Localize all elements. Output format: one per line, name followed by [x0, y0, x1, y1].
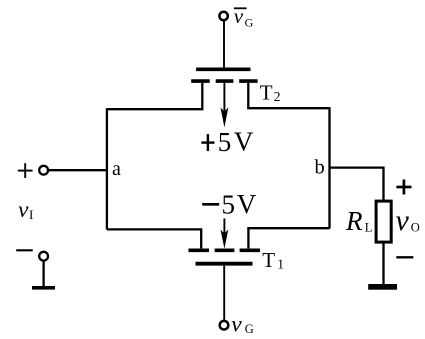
svg-text:v: v [396, 204, 410, 237]
svg-text:2: 2 [274, 89, 281, 104]
svg-text:G: G [245, 15, 254, 29]
svg-text:v: v [231, 311, 242, 337]
wire: input + terminal to node a [49, 169, 107, 171]
svg-text:G: G [245, 322, 254, 336]
label vG [231, 311, 254, 337]
terminal v̄G (top) [219, 12, 227, 20]
wire: RL bottom lead to ground [382, 243, 384, 285]
label T1 [262, 248, 284, 272]
label − (output polarity) [396, 256, 413, 258]
label T2 [260, 81, 281, 105]
label +5 V [201, 127, 254, 158]
svg-text:T: T [260, 81, 273, 105]
label RL [345, 206, 372, 236]
ground (input) [32, 286, 55, 290]
terminal input + [39, 166, 48, 175]
transistor T2 [191, 69, 257, 81]
svg-text:1: 1 [277, 256, 284, 271]
resistor RL [376, 201, 391, 242]
terminal vG (bottom) [220, 321, 229, 330]
svg-text:v: v [18, 197, 29, 223]
svg-text:5: 5 [222, 190, 236, 220]
svg-text:5: 5 [218, 127, 232, 157]
svg-text:V: V [234, 127, 254, 157]
wire: v̄G terminal to T2 gate [223, 21, 225, 68]
label vI [18, 197, 33, 223]
svg-text:T: T [262, 248, 275, 272]
T1 substrate arrow [221, 219, 229, 249]
wire: T2 source to left bus (corner) [107, 83, 202, 109]
svg-text:I: I [29, 207, 33, 222]
label + (output polarity) [396, 180, 411, 195]
label + (input polarity) [18, 163, 33, 178]
ground (output) [368, 284, 397, 290]
label v̄G [234, 4, 254, 29]
svg-text:R: R [345, 206, 363, 236]
wire: right bus node b [328, 107, 330, 229]
svg-text:O: O [411, 220, 420, 234]
label −5 V [202, 189, 257, 220]
wire: T1 drain to right bus (corner) [248, 228, 329, 248]
svg-text:v: v [234, 4, 244, 28]
wire: left bus to T1 source (corner) [107, 229, 201, 248]
svg-text:L: L [365, 220, 373, 234]
wire: left bus node a [106, 108, 108, 229]
label vO [396, 204, 420, 237]
svg-text:b: b [315, 157, 325, 179]
transistor T1 [189, 250, 261, 263]
T2 substrate arrow [221, 83, 229, 128]
wire: T1 gate lead to vG terminal [223, 266, 225, 321]
svg-text:V: V [237, 189, 257, 219]
wire: T2 drain to right bus (corner) [248, 83, 329, 108]
label − (input polarity) [16, 249, 33, 251]
svg-text:a: a [112, 158, 121, 180]
wire: node b to RL (corner) [330, 168, 384, 201]
terminal input − [39, 252, 48, 261]
wire: input − terminal to ground [42, 262, 44, 287]
